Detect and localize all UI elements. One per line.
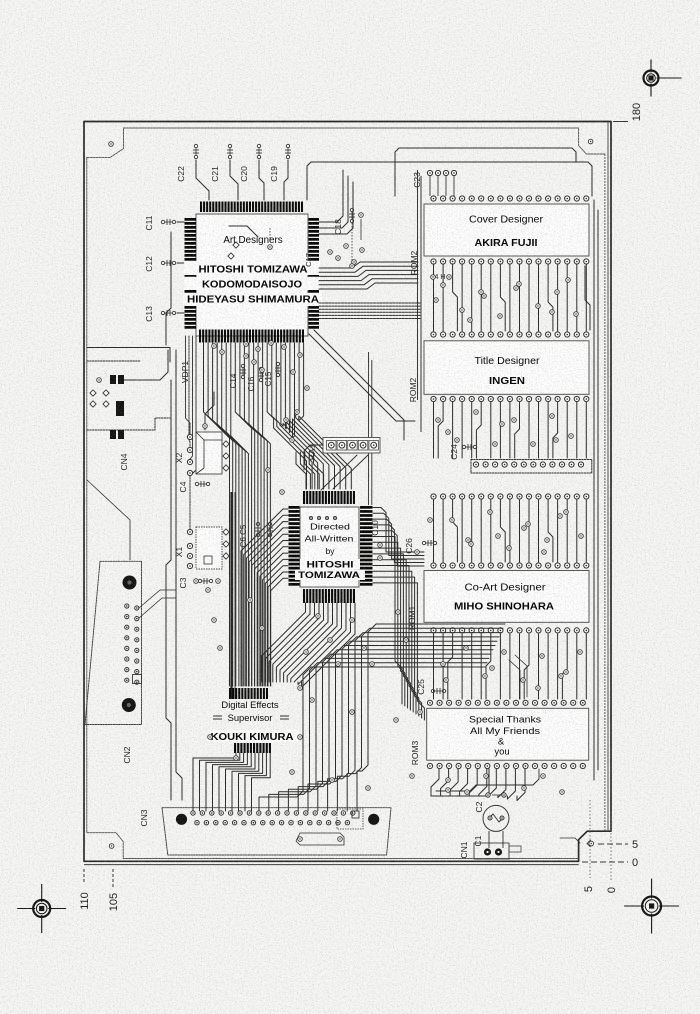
crystal X1 bbox=[196, 527, 222, 569]
label TOMIZAWA U2 bbox=[295, 570, 365, 581]
wire U2 top fan bbox=[296, 452, 306, 489]
wire ROM mid column bbox=[476, 402, 481, 458]
board inner silk boundary top bbox=[87, 128, 605, 158]
wire U2 bottom fan bbox=[298, 603, 351, 685]
connector CN4 outline bbox=[87, 348, 170, 363]
wire ROM1A column bbox=[490, 500, 492, 562]
comb digital 1 bbox=[229, 688, 231, 699]
wire right bus 2 bbox=[597, 210, 599, 770]
via bbox=[212, 618, 217, 623]
wire U1 bottom bus bbox=[240, 343, 255, 686]
wire ROM mid column bbox=[509, 402, 511, 458]
wire U1 to ROM2 bus low bbox=[319, 305, 420, 307]
wire U1 bottom bus bbox=[244, 343, 258, 686]
wire ROM1B bottom bbox=[507, 769, 515, 799]
wire ROM2 column bbox=[528, 264, 530, 331]
via top-right notch bbox=[588, 139, 593, 144]
via bbox=[310, 698, 315, 703]
via bbox=[206, 588, 211, 593]
via bbox=[436, 418, 441, 423]
wire ROM2 column bbox=[519, 264, 521, 331]
via bbox=[464, 646, 469, 651]
IC U1 right pin comb bbox=[309, 218, 320, 221]
wire ROM mid column bbox=[553, 402, 558, 458]
wire U1 to ROM2 bus low bbox=[319, 314, 420, 316]
wire U2 left fan bbox=[252, 534, 288, 686]
wire CN2 out 1 bbox=[139, 590, 176, 608]
via bbox=[555, 290, 560, 295]
via bbox=[460, 308, 465, 313]
via bbox=[554, 438, 559, 443]
wire ROM mid column bbox=[566, 402, 568, 458]
pad row2 upper ROM1A bbox=[431, 494, 436, 499]
CN3 hole right bbox=[368, 814, 379, 825]
wire U1 left down 1 bbox=[186, 336, 191, 434]
via bbox=[521, 678, 526, 683]
via bbox=[218, 646, 223, 651]
via bottom-right notch bbox=[587, 840, 593, 846]
via bbox=[441, 283, 446, 288]
via bbox=[455, 438, 460, 443]
wire ROM2 column bbox=[433, 264, 435, 331]
wire U2 left fan bbox=[249, 528, 288, 686]
via bbox=[545, 538, 550, 543]
via bbox=[304, 650, 309, 655]
wire ROM mid column bbox=[585, 402, 587, 458]
wire ROM1A column bbox=[453, 500, 458, 562]
IC U1 left pin comb bbox=[185, 218, 197, 221]
wire U2 left fan bbox=[271, 578, 288, 686]
via bbox=[446, 788, 451, 793]
pad row mid ROM2 bbox=[431, 332, 436, 337]
wire U1 to U2 bbox=[276, 343, 317, 489]
wire right to CN3 bbox=[328, 637, 499, 811]
wire ROM2 column bbox=[538, 264, 540, 331]
via bbox=[336, 662, 341, 667]
board inner silk boundary right bbox=[604, 154, 606, 831]
via kouki bbox=[208, 735, 213, 740]
wire ROM1 mid column bbox=[557, 634, 559, 699]
wire U1 bottom bus bbox=[217, 343, 239, 686]
wire ROM2 column bbox=[509, 264, 511, 331]
wire ROM1 mid column bbox=[433, 634, 435, 699]
via bbox=[350, 618, 355, 623]
wire U2 bottom fan bbox=[302, 603, 355, 687]
via bbox=[493, 442, 498, 447]
wire X2 top bbox=[205, 392, 214, 430]
wire right to CN3 bbox=[337, 633, 501, 811]
pad row above ROM2A bbox=[431, 196, 436, 201]
wire ROM1B bottom bbox=[488, 769, 496, 796]
CN2 hole bottom bbox=[122, 698, 136, 712]
wire U1 bottom bus bbox=[204, 343, 230, 686]
wire ROM1A column bbox=[566, 500, 568, 562]
wire U2 right fan bbox=[373, 519, 424, 559]
CN3 lower loop bbox=[296, 833, 344, 845]
via bbox=[450, 518, 455, 523]
wire ROM1B to C2 bbox=[488, 769, 490, 793]
CN2 pin pair bbox=[125, 646, 129, 650]
via bbox=[404, 638, 409, 643]
label KODOMODAISOJO bbox=[184, 277, 320, 290]
wire U2 top fan bbox=[314, 452, 324, 489]
wire KOUKI to CN3 bbox=[219, 753, 251, 811]
wire U1 to ROM2 bus low bbox=[319, 302, 420, 304]
IC ROM2B body bbox=[424, 341, 589, 395]
wire ROM2 column bbox=[453, 264, 458, 331]
wire KOUKI to CN3 bbox=[206, 753, 244, 811]
wire U2 right fan bbox=[373, 525, 424, 563]
via zoneA 1 bbox=[212, 344, 217, 349]
CN2 pin pair bbox=[125, 678, 129, 682]
via bbox=[366, 786, 371, 791]
via zoneA 2 bbox=[298, 353, 303, 358]
wire U2 bottom fan bbox=[287, 603, 337, 682]
via bbox=[490, 666, 495, 671]
via bbox=[507, 546, 512, 551]
wire U2 right fan low bbox=[373, 571, 419, 716]
wire ROM1 mid column bbox=[538, 634, 540, 699]
wire U2 bottom fan bbox=[262, 603, 306, 682]
fiducial mark bottom-right bbox=[642, 897, 661, 916]
wire U1 bottom bus bbox=[226, 343, 245, 686]
via bbox=[280, 490, 285, 495]
via bbox=[316, 614, 321, 619]
wire ROM2 column bbox=[490, 264, 492, 331]
via bbox=[394, 718, 399, 723]
wire U2 bottom fan bbox=[284, 603, 333, 682]
wire KOUKI to CN3 bbox=[232, 753, 259, 811]
wire U2 left fan bbox=[263, 559, 288, 686]
via bbox=[498, 314, 503, 319]
via bbox=[260, 626, 265, 631]
wire U1 left down 4 bbox=[190, 336, 196, 476]
wire ROM2 column bbox=[471, 264, 473, 331]
via bbox=[564, 670, 569, 675]
wire C22 to U1 bbox=[196, 160, 209, 200]
wire ROM2 column bbox=[576, 264, 578, 331]
wire U2 bottom fan bbox=[266, 603, 310, 682]
via bbox=[441, 662, 446, 667]
via bbox=[370, 662, 375, 667]
via bbox=[330, 778, 335, 783]
connector CN2 outline bbox=[85, 561, 142, 724]
wire U2 right fan bbox=[373, 531, 424, 566]
wire ROM1 mid column bbox=[576, 634, 578, 699]
IC U2 right pin comb bbox=[360, 506, 373, 509]
wire U1 to U2 bbox=[289, 343, 334, 489]
wire U1 bottom bus bbox=[258, 343, 267, 686]
wire ROM1B bottom bbox=[498, 769, 506, 798]
wire ROM1 mid column bbox=[471, 634, 473, 699]
wire ROM1A column bbox=[509, 500, 511, 562]
pad row above ROM1A bbox=[431, 563, 436, 568]
wire U2 right fan low bbox=[373, 554, 410, 710]
IC U2 bottom pin comb bbox=[303, 589, 305, 603]
wire U2 bottom fan bbox=[276, 603, 323, 682]
fiducial mark top-right bbox=[644, 71, 659, 86]
via bbox=[266, 468, 271, 473]
wire ROM1A column bbox=[442, 500, 444, 562]
wire U2 right fan low bbox=[373, 583, 424, 720]
via bbox=[469, 542, 474, 547]
wire U2 bottom fan bbox=[280, 603, 328, 682]
via bbox=[512, 418, 517, 423]
wire U1 bottom bus bbox=[263, 343, 271, 686]
wire top-right box inner bbox=[395, 148, 576, 196]
wire diagonal U1 to bus bbox=[309, 334, 415, 421]
label HITOSHI TOMIZAWA bbox=[184, 261, 320, 275]
CN3 hole left bbox=[176, 814, 187, 825]
wire left diag bbox=[87, 480, 130, 560]
wire U1 bottom bus bbox=[249, 343, 261, 686]
wire ROM1B bottom bbox=[517, 769, 525, 801]
wire U1 to U2 bbox=[293, 343, 341, 489]
wire ROM1 mid column bbox=[509, 634, 511, 699]
wire KOUKI to CN3 bbox=[239, 753, 263, 811]
wire U1 to ROM2 bus bbox=[319, 283, 418, 289]
via bbox=[444, 678, 449, 683]
wire U1 to U2 bbox=[296, 343, 346, 489]
connector CN1 bbox=[474, 843, 509, 859]
wire U2 left fan bbox=[268, 572, 288, 686]
wire U2 right fan low bbox=[373, 577, 422, 718]
wire ROM2 left bus bbox=[417, 170, 419, 400]
wire ROM2 column bbox=[566, 264, 568, 331]
wire ROM2 column bbox=[442, 264, 444, 331]
IC U1 body bbox=[196, 214, 308, 336]
via bbox=[298, 686, 303, 691]
wire ROM1A column bbox=[548, 500, 553, 562]
pad row upper ROM1A bbox=[473, 462, 478, 467]
wire C12 to U1 left bbox=[177, 262, 184, 264]
via bbox=[284, 418, 289, 423]
CN4 smd pad 2 bbox=[116, 401, 124, 416]
wire C23 drop 1 bbox=[429, 176, 431, 196]
wire left vertical 2 bbox=[176, 350, 182, 800]
wire ROM mid column bbox=[438, 402, 443, 458]
wire inside U1 bbox=[229, 226, 258, 237]
wire ROM1 mid column bbox=[585, 634, 587, 699]
wire U2 top fan bbox=[300, 452, 310, 489]
via bbox=[541, 774, 546, 779]
wire U2 right fan low bbox=[373, 560, 413, 712]
wire right bus 1 bbox=[593, 200, 595, 780]
wire right to CN3 bbox=[347, 628, 503, 811]
CN2 pin pair bbox=[125, 636, 129, 640]
wire ROM2 column bbox=[500, 264, 505, 331]
via bbox=[428, 518, 433, 523]
CN3 pad row 1 bbox=[191, 811, 195, 815]
via bbox=[550, 310, 555, 315]
wire U1 to U2 bbox=[267, 343, 306, 489]
wire ROM1A column bbox=[557, 500, 559, 562]
wire ROM1A column bbox=[433, 500, 435, 562]
CN3 pad row 2 bbox=[195, 821, 199, 825]
wire U2 left fan bbox=[246, 522, 288, 686]
wire ROM1A column bbox=[461, 500, 463, 562]
wire ROM1 mid column bbox=[448, 634, 453, 699]
wire U2 left fan bbox=[257, 547, 288, 686]
wire ROM1B bottom bbox=[479, 769, 487, 796]
wire U2 bottom fan bbox=[294, 603, 346, 682]
wire bottom bus 1 bbox=[431, 793, 489, 796]
wire ROM1A column bbox=[538, 500, 540, 562]
wire U1 bottom bus bbox=[231, 343, 249, 686]
wire U1 upper right bbox=[319, 182, 353, 234]
via bbox=[579, 534, 584, 539]
wire C23 drop 3 bbox=[445, 176, 447, 196]
wire vertical pair right bbox=[368, 352, 370, 505]
wire right to CN3 bbox=[357, 624, 505, 811]
wire U1 to ROM2 bus low bbox=[319, 308, 420, 310]
wire right to CN3 bbox=[269, 663, 487, 811]
wire C20 to U1 bbox=[259, 160, 264, 200]
wire U2 right fan bbox=[373, 513, 424, 555]
wire right to CN3 bbox=[298, 650, 493, 811]
wire ROM2 column bbox=[548, 264, 553, 331]
resistor array RA1 bbox=[323, 438, 380, 454]
via row inside U2 bbox=[309, 516, 312, 519]
wire ROM right jog bbox=[585, 266, 590, 330]
via bbox=[536, 686, 541, 691]
via bbox=[396, 610, 401, 615]
via bbox=[244, 354, 249, 359]
wire ROM1 mid column bbox=[499, 634, 501, 699]
CN3 sub box bbox=[337, 809, 363, 829]
wire bottom right rows bbox=[509, 660, 520, 699]
CN2 pin pair bbox=[125, 657, 129, 661]
wire U1 left down 3 bbox=[190, 336, 193, 461]
wire U1 left down 2 bbox=[189, 336, 190, 448]
wire KOUKI to CN3 bbox=[226, 753, 256, 811]
pad row below ROM2B bbox=[431, 396, 436, 401]
wire ROM mid column bbox=[490, 402, 492, 458]
via bbox=[540, 654, 545, 659]
wire U2 bottom fan bbox=[291, 603, 342, 682]
via bbox=[350, 710, 355, 715]
wire ROM mid column bbox=[538, 402, 540, 458]
crystal Y1 circle bbox=[483, 805, 509, 831]
wire ROM1 mid column bbox=[524, 634, 529, 699]
via bbox=[446, 430, 451, 435]
via bbox=[558, 514, 563, 519]
wire ROM1 mid column bbox=[442, 634, 444, 699]
via bbox=[252, 360, 257, 365]
via bbox=[522, 526, 527, 531]
wire U2 bottom fan bbox=[269, 603, 314, 682]
wire U2 right fan low bbox=[373, 566, 416, 715]
label Digital Effects bbox=[212, 699, 288, 710]
wire U1 to ROM2 bus bbox=[319, 279, 418, 285]
wire left vertical 1 bbox=[166, 380, 171, 800]
wire C13 to U1 left bbox=[177, 312, 184, 314]
via bbox=[362, 646, 367, 651]
via bbox=[514, 286, 519, 291]
wire right to CN3 bbox=[308, 646, 495, 812]
via bbox=[566, 278, 571, 283]
via bbox=[531, 442, 536, 447]
wire U2 right fan low bbox=[373, 548, 408, 708]
wire thick bus bbox=[230, 492, 232, 700]
via bbox=[522, 786, 527, 791]
wire inside U1 b bbox=[269, 228, 271, 243]
wire KOUKI to CN3 bbox=[200, 753, 240, 811]
wire ROM mid column bbox=[461, 402, 463, 458]
via bbox=[550, 414, 555, 419]
IC U1 bottom pin comb bbox=[199, 330, 201, 343]
CN2 hole top bbox=[123, 576, 137, 590]
wire RA1 diag 1 bbox=[321, 455, 357, 490]
wire U2 left fan bbox=[241, 509, 288, 686]
wire ROM1B bottom bbox=[469, 769, 477, 796]
via bbox=[526, 522, 531, 527]
wire ROM1B bottom bbox=[441, 769, 449, 796]
wire ROM1B bottom bbox=[431, 769, 439, 796]
IC U2 top pin comb bbox=[303, 491, 305, 504]
via bbox=[569, 434, 574, 439]
wire C11 to U1 left bbox=[177, 221, 184, 223]
wire CN2 out 2 bbox=[139, 598, 176, 618]
wire ROM1B bottom bbox=[460, 769, 468, 796]
wire ROM mid column bbox=[433, 402, 435, 458]
via top-left notch bbox=[109, 142, 114, 147]
via bbox=[496, 534, 501, 539]
IC ROM1B body bbox=[427, 708, 589, 760]
via bbox=[488, 510, 493, 515]
wire bottom bus 2 bbox=[436, 769, 539, 791]
wire ROM1 mid column bbox=[562, 634, 567, 699]
wire C21 to U1 bbox=[230, 160, 238, 200]
wire KOUKI to CN3 bbox=[252, 753, 271, 811]
via bbox=[290, 438, 295, 443]
wire C2 legs bbox=[488, 831, 490, 848]
via bbox=[517, 282, 522, 287]
label HITOSHI U2 bbox=[300, 559, 360, 569]
wire ROM1 mid column bbox=[547, 634, 549, 699]
wire ROM mid column bbox=[576, 402, 578, 458]
wire C23 drop 2 bbox=[437, 176, 439, 196]
IC U1 top pin comb bbox=[200, 202, 202, 213]
via bbox=[479, 290, 484, 295]
wire U1 bottom bus bbox=[213, 343, 236, 686]
wire U2 right fan low bbox=[373, 537, 402, 705]
via bbox=[248, 598, 253, 603]
wire ROM mid column bbox=[499, 402, 501, 458]
wire U1 bottom bus bbox=[208, 343, 233, 686]
wire ROM1 mid column bbox=[519, 634, 521, 699]
wire ROM mid column bbox=[528, 402, 530, 458]
wire ROM mid column bbox=[515, 402, 520, 458]
CN4 smd pad 3 bbox=[110, 430, 116, 439]
wire U1 to U2 bbox=[299, 343, 352, 489]
wire right to CN3 bbox=[318, 641, 497, 811]
wire bottom right corner bbox=[560, 838, 580, 843]
wire U1 upper right bbox=[319, 176, 348, 228]
CN2 pin frame bbox=[133, 675, 142, 684]
pad row above ROM1B bbox=[427, 700, 432, 705]
via bbox=[484, 774, 489, 779]
IC ROM1A body bbox=[424, 571, 589, 623]
via bbox=[564, 510, 569, 515]
wire U2 top fan bbox=[305, 452, 315, 489]
via bottom-left notch bbox=[109, 844, 114, 849]
wire left edge bus bbox=[166, 232, 171, 345]
CN4 vias bbox=[90, 390, 96, 396]
pad row below ROM2A bbox=[431, 259, 436, 264]
wire C19 to U1 bbox=[284, 160, 288, 200]
via bbox=[578, 650, 583, 655]
